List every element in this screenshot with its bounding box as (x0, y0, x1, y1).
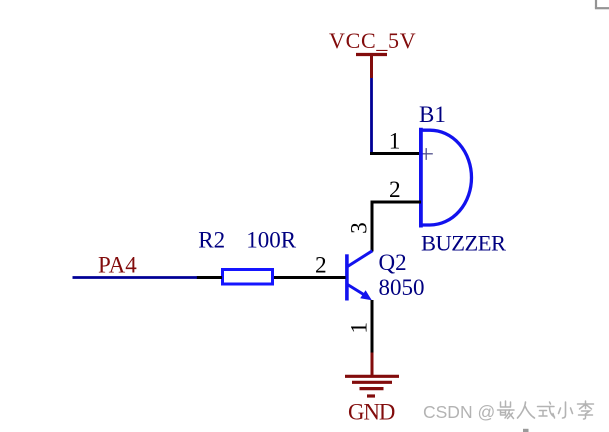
Q2 collector wire (vertical) (371, 201, 374, 252)
power symbol VCC_5V bar (356, 53, 387, 56)
svg-text:100R: 100R (246, 228, 296, 253)
svg-text:BUZZER: BUZZER (421, 231, 506, 256)
cropped text mark bottom edge (523, 429, 529, 432)
svg-text:B1: B1 (419, 102, 446, 127)
B1 pin 1 wire (370, 152, 421, 155)
Q2 emitter wire (vertical) (371, 300, 374, 353)
svg-text:R2: R2 (198, 228, 225, 253)
svg-text:2: 2 (389, 177, 401, 203)
watermark emboss highlight (424, 402, 595, 423)
resistor R2 body (223, 270, 273, 285)
svg-text:2: 2 (315, 253, 327, 279)
svg-text:1: 1 (346, 322, 372, 334)
ground (345, 376, 399, 396)
sheet corner mark top-right (595, 0, 609, 8)
power symbol VCC_5V stem (370, 53, 373, 78)
wire VCC to B1 pin 1 (vertical net segment) (370, 78, 373, 154)
ground stem (371, 353, 374, 377)
Q2 base wire (274, 276, 346, 279)
buzzer B1 body (421, 128, 472, 228)
svg-text:8050: 8050 (379, 275, 425, 300)
svg-text:GND: GND (348, 400, 395, 425)
svg-text:VCC_5V: VCC_5V (329, 28, 416, 53)
svg-text:3: 3 (346, 222, 372, 234)
watermark CSDN @qianrushixiaoli (423, 401, 594, 422)
resistor R2 left lead (197, 276, 223, 279)
svg-text:PA4: PA4 (98, 253, 137, 278)
svg-text:1: 1 (389, 129, 401, 155)
transistor Q2 (347, 251, 372, 301)
plus polarity mark at B1 pin 1 (421, 148, 433, 160)
B1 pin 2 wire (371, 201, 422, 204)
svg-text:Q2: Q2 (379, 250, 407, 275)
wire PA4 net (73, 276, 198, 279)
